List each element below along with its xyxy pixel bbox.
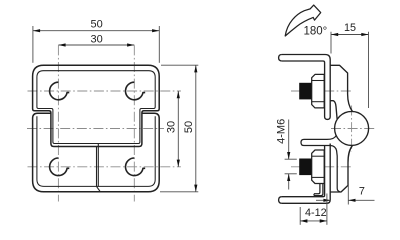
side view: bottom mounting flange and lower plate (leaf B) xyxy=(279,144,331,204)
side view: top hex nut xyxy=(312,74,325,108)
side view: lower boss behind plate xyxy=(330,145,352,192)
dimension 4-12: arrows xyxy=(300,219,327,222)
hole M6 bottom-left xyxy=(50,158,70,176)
rotation arrow 180 degrees xyxy=(285,5,321,36)
hinge front view: center split line of leaves xyxy=(97,144,100,192)
dimension 7: lines and arrow xyxy=(316,184,375,205)
centerline: left view top hole row xyxy=(28,90,181,92)
side view: knuckle circle xyxy=(335,111,369,145)
dimension 30 right: line and arrows xyxy=(177,91,179,167)
dimension 15: arrows xyxy=(331,33,369,36)
hinge front view: bottom leaf outer outline xyxy=(33,113,160,192)
hole M6 top-right xyxy=(126,82,146,100)
svg-text:50: 50 xyxy=(183,121,195,133)
svg-text:7: 7 xyxy=(359,186,365,198)
centerline: left view vertical hole axis left xyxy=(57,45,59,201)
dimension 50 right: extension lines xyxy=(160,65,198,192)
dimension 4-M6: arrows and extension lines xyxy=(285,120,297,190)
hinge front view: bottom leaf inner line xyxy=(37,116,155,186)
dimension 4-12: extension lines xyxy=(300,194,327,225)
dimension 30 top: line xyxy=(58,44,134,46)
side view: bottom hex nut xyxy=(312,150,325,184)
svg-text:30: 30 xyxy=(90,34,102,46)
hinge front view: top leaf inner bend line xyxy=(37,71,155,144)
side view: top mounting flange and upper plate (leaf A) xyxy=(279,55,331,120)
hole M6 top-left xyxy=(50,82,70,100)
dimension 50 right: arrows xyxy=(194,65,197,192)
hole M6 bottom-right xyxy=(126,158,146,176)
centerline: side view pivot vertical xyxy=(351,106,353,152)
dimension 30 top: arrows xyxy=(58,43,134,46)
centerline: left view vertical hole axis right xyxy=(133,45,135,201)
centerline: side view bottom bolt axis xyxy=(291,166,351,168)
svg-text:4-12: 4-12 xyxy=(305,207,327,219)
side view: bottom bolt threaded stud xyxy=(299,159,311,176)
svg-text:30: 30 xyxy=(166,121,178,133)
dimension 50 top: arrows xyxy=(33,29,159,32)
dimension 50 top: extension lines xyxy=(33,26,159,63)
svg-text:15: 15 xyxy=(344,22,356,34)
svg-text:4-M6: 4-M6 xyxy=(276,119,288,144)
centerline: left view horizontal middle xyxy=(27,128,164,130)
hinge front view: top leaf outer outline xyxy=(33,65,160,146)
centerline: side view pivot horizontal xyxy=(331,128,375,130)
svg-text:180°: 180° xyxy=(304,26,328,38)
centerline: side view top bolt axis xyxy=(291,90,351,92)
svg-text:50: 50 xyxy=(90,18,102,30)
dimension 15: extension and dimension lines xyxy=(331,32,369,108)
side view: middle wrapped tongue bar of leaf A xyxy=(301,136,340,196)
side view: top bolt threaded stud xyxy=(299,83,311,100)
side view: upper boss behind plate xyxy=(330,65,352,119)
centerline: left view bottom hole row xyxy=(28,166,181,168)
